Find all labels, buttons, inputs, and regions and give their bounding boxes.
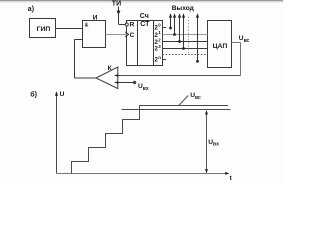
svg-text:Выход: Выход (172, 5, 195, 12)
svg-text:ГИП: ГИП (37, 26, 51, 33)
svg-text:б): б) (30, 91, 37, 99)
svg-text:вх: вх (213, 142, 219, 148)
svg-text:вх: вх (143, 86, 149, 92)
svg-text:вс: вс (195, 95, 201, 101)
svg-text:К: К (108, 65, 112, 72)
svg-text:И: И (93, 14, 98, 21)
svg-text:C: C (130, 32, 135, 39)
svg-text:&: & (85, 22, 89, 28)
svg-text:Сч: Сч (140, 13, 149, 20)
svg-text:U: U (60, 91, 65, 98)
svg-text:ТИ: ТИ (112, 0, 121, 7)
svg-text:R: R (130, 22, 135, 29)
svg-text:СТ: СТ (140, 21, 150, 28)
svg-text:вс: вс (244, 38, 250, 44)
svg-text:а): а) (28, 6, 34, 13)
svg-text:n: n (158, 55, 161, 60)
svg-text:ЦАП: ЦАП (213, 43, 228, 50)
